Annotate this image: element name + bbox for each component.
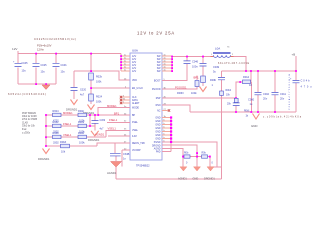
svg-text:12V: 12V bbox=[132, 62, 137, 64]
svg-text:C025: C025 bbox=[41, 64, 48, 67]
wire SW bus bbox=[171, 56, 173, 71]
node SW bus dots bbox=[171, 56, 297, 113]
svg-text:R0b2: R0b2 bbox=[53, 120, 60, 124]
svg-text:MODE1: MODE1 bbox=[107, 104, 117, 108]
svg-text:REFIN_TRK: REFIN_TRK bbox=[132, 143, 145, 145]
svg-text:EN_UVLO: EN_UVLO bbox=[132, 88, 143, 90]
svg-text:12V: 12V bbox=[132, 68, 137, 70]
pin names right column bbox=[152, 56, 161, 154]
capacitor C010 bbox=[255, 92, 262, 94]
svg-text:20v: 20v bbox=[263, 97, 268, 101]
wire snubber column bbox=[202, 57, 204, 87]
svg-text:c.c350z: c.c350z bbox=[22, 133, 31, 135]
wire PAD stub bbox=[162, 151, 171, 153]
wire PGOOD bbox=[162, 87, 197, 90]
svg-text:CLK: CLK bbox=[132, 97, 137, 99]
svg-text:BP1: BP1 bbox=[194, 76, 200, 80]
wire AGND pin route bbox=[162, 149, 183, 157]
pin stubs left VIN x6 bbox=[121, 56, 130, 103]
svg-text:2x: 2x bbox=[124, 58, 126, 60]
svg-text:GND: GND bbox=[155, 128, 160, 130]
node dots GND bus bbox=[170, 116, 211, 157]
wire 12V input rail bbox=[18, 51, 121, 54]
resistor R02b bbox=[89, 73, 94, 80]
svg-text:R024: R024 bbox=[96, 96, 103, 99]
ground arrow snubber bbox=[200, 87, 207, 92]
svg-text:27b4 for P0ZB: 27b4 for P0ZB bbox=[22, 118, 37, 121]
wire cap C045 column bbox=[17, 54, 19, 85]
svg-text:12V: 12V bbox=[132, 56, 137, 58]
wire boot cap top bbox=[186, 57, 188, 61]
node junction dots input bbox=[35, 53, 92, 89]
ground GND triangle bottom bbox=[194, 167, 201, 171]
resistor R03N pgood pullup bbox=[195, 81, 199, 87]
ground DRGND1 triangle bottom bbox=[207, 167, 214, 171]
svg-text:12V: 12V bbox=[132, 59, 137, 61]
resistor R014 bbox=[243, 80, 251, 84]
svg-text:10u: 10u bbox=[41, 71, 46, 74]
svg-text:FSEL1: FSEL1 bbox=[109, 118, 118, 122]
wire output cap column 1 bbox=[257, 71, 259, 112]
capacitor C04b bulk 470u bbox=[293, 80, 300, 82]
svg-text:AGND1: AGND1 bbox=[95, 133, 105, 137]
svg-text:VSEL1: VSEL1 bbox=[108, 126, 117, 130]
svg-text:2x: 2x bbox=[124, 64, 126, 66]
wire input ground rail bbox=[18, 83, 56, 85]
node VIN bus dots bbox=[120, 55, 122, 69]
wire output mid rail B bbox=[222, 70, 297, 72]
ground AGND1 triangle bottom bbox=[180, 167, 187, 171]
resistor R010 VSEL right bbox=[78, 135, 87, 138]
wire AGND return rail bbox=[116, 178, 222, 180]
wire R014 branch bbox=[236, 71, 251, 112]
pin stubs right SW x6 bbox=[162, 56, 172, 71]
svg-text:BP1: BP1 bbox=[114, 111, 120, 115]
svg-text:GND: GND bbox=[155, 121, 160, 123]
svg-text:100k: 100k bbox=[96, 101, 102, 104]
svg-text:4u7: 4u7 bbox=[80, 94, 85, 97]
wire C020 column bbox=[73, 71, 75, 99]
pin names left column bbox=[132, 56, 145, 152]
wire SW to inductor bbox=[172, 56, 213, 58]
svg-text:2x: 2x bbox=[124, 55, 126, 57]
svg-text:DATA: DATA bbox=[132, 99, 138, 102]
wire BP cap column bbox=[94, 115, 96, 130]
wire DRGND route bbox=[162, 145, 197, 156]
note bottom left block bbox=[22, 113, 37, 135]
wire VSEL row bbox=[46, 130, 130, 137]
svg-text:PGND: PGND bbox=[154, 142, 161, 144]
wire cap C025 column bbox=[35, 54, 37, 85]
svg-text:C045: C045 bbox=[22, 62, 29, 65]
svg-text:C049: C049 bbox=[213, 65, 220, 69]
svg-text:RSN: RSN bbox=[156, 105, 161, 107]
resistor R01b MODE right bbox=[78, 113, 87, 116]
svg-text:MODE1: MODE1 bbox=[63, 111, 73, 115]
svg-text:R0b4: R0b4 bbox=[53, 109, 60, 113]
wire inductor to output corner bbox=[231, 57, 246, 72]
svg-text:20v: 20v bbox=[280, 97, 285, 101]
svg-text:DRGND: DRGND bbox=[152, 146, 161, 148]
svg-text:2x: 2x bbox=[124, 67, 126, 69]
resistor R0b zero ohm 1 bbox=[184, 155, 190, 158]
ground DRGND1 arrow under R024 bbox=[88, 105, 95, 110]
svg-text:GND: GND bbox=[155, 118, 160, 120]
svg-text:60524c(C0364K04b): 60524c(C0364K04b) bbox=[8, 92, 46, 96]
node dots bottom left bbox=[45, 114, 99, 147]
pin numbers right bbox=[164, 55, 167, 143]
svg-text:VSEL1: VSEL1 bbox=[63, 133, 72, 137]
svg-text:2x: 2x bbox=[124, 61, 126, 63]
svg-text:GND: GND bbox=[155, 139, 160, 141]
svg-text:6KL4T0-4R7-1C09E: 6KL4T0-4R7-1C09E bbox=[218, 63, 249, 65]
svg-text:100k: 100k bbox=[191, 91, 197, 95]
wire 12V bus to VIN pins bbox=[120, 54, 122, 72]
svg-text:33k2 for 10k: 33k2 for 10k bbox=[22, 125, 36, 128]
wire zero ohm link row bbox=[183, 157, 210, 168]
svg-text:R03N: R03N bbox=[177, 91, 184, 95]
svg-text:VCOMP: VCOMP bbox=[132, 150, 141, 152]
wire divider left column bbox=[45, 115, 47, 146]
op-amp U0A converter IC box bbox=[130, 53, 162, 160]
wire BP1 pullup top bbox=[196, 76, 198, 81]
ground DRGND1 left column bbox=[43, 149, 50, 154]
svg-text:L0A: L0A bbox=[215, 47, 220, 51]
wire +B output column bbox=[295, 56, 297, 112]
svg-text:R02b: R02b bbox=[96, 76, 103, 79]
svg-text:AGND1: AGND1 bbox=[178, 176, 187, 180]
wire REFIN_TRK tap bbox=[114, 143, 116, 153]
capacitor C309 BP bypass bbox=[92, 121, 99, 124]
wire REFIN row bbox=[46, 143, 130, 146]
resistor R024 bbox=[89, 94, 94, 101]
svg-text:AGND1: AGND1 bbox=[107, 171, 117, 175]
capacitor C025 bbox=[33, 64, 40, 67]
ground DRGND1 arrow under C020 bbox=[71, 100, 78, 105]
wire EN_UVLO bbox=[91, 87, 130, 89]
wire GND bus column bbox=[170, 118, 172, 152]
capacitor C046 boot bbox=[184, 61, 191, 64]
svg-text:GND: GND bbox=[251, 124, 257, 128]
no-connect X marks CLK DATA ALERT bbox=[120, 96, 122, 104]
wire Vo sense chain bbox=[221, 71, 223, 179]
svg-text:R019: R019 bbox=[78, 120, 85, 124]
svg-text:TPS548B22: TPS548B22 bbox=[136, 165, 150, 168]
svg-text:AGND: AGND bbox=[154, 148, 161, 151]
svg-text:DRGND1: DRGND1 bbox=[88, 138, 100, 142]
capacitor C045 bbox=[15, 64, 22, 67]
svg-text:C060: C060 bbox=[248, 97, 255, 101]
capacitor C049 sense bbox=[218, 77, 225, 79]
svg-text:12V: 12V bbox=[132, 65, 137, 67]
svg-text:ILIM: ILIM bbox=[132, 136, 137, 138]
svg-text:GND: GND bbox=[155, 135, 160, 137]
svg-text:100k: 100k bbox=[96, 81, 102, 84]
capacitor C011 bbox=[272, 92, 279, 94]
svg-text:C04b: C04b bbox=[61, 64, 68, 67]
svg-text:BP: BP bbox=[132, 115, 136, 117]
wire R02b to EN node bbox=[90, 80, 92, 104]
svg-text:P1N=6x10V: P1N=6x10V bbox=[37, 44, 52, 48]
pin numbers left bbox=[123, 55, 127, 151]
capacitor snubber bbox=[200, 63, 207, 66]
svg-text:DRGND1: DRGND1 bbox=[204, 176, 215, 180]
svg-text:PGOOD: PGOOD bbox=[152, 89, 161, 91]
wire divider mid column bbox=[89, 115, 91, 126]
capacitor C04b bbox=[53, 64, 60, 67]
resistor R0bZ ILIM bbox=[61, 144, 70, 148]
no-connect X mark NC pin bbox=[168, 109, 170, 111]
svg-text:R0b: R0b bbox=[184, 153, 189, 155]
svg-text:PAD: PAD bbox=[156, 151, 161, 154]
svg-text:MODE: MODE bbox=[132, 108, 139, 110]
capacitor C34B comp bbox=[110, 153, 121, 156]
wire ILIM bbox=[108, 135, 130, 137]
wire PGND route bbox=[162, 142, 222, 167]
svg-text:BOOT: BOOT bbox=[154, 81, 161, 83]
wire VCOMP bbox=[122, 150, 130, 167]
svg-text:100k: 100k bbox=[79, 141, 85, 145]
svg-text:GND: GND bbox=[155, 125, 160, 127]
pin stubs right GND x7 bbox=[162, 118, 171, 139]
svg-text:12Vin: 12Vin bbox=[37, 48, 44, 52]
svg-text:FSEL: FSEL bbox=[132, 122, 139, 124]
svg-text:c.c09b(ab,42)4bK0a: c.c09b(ab,42)4bK0a bbox=[263, 117, 302, 119]
svg-text:10k: 10k bbox=[61, 150, 66, 154]
wire cap C04b column bbox=[55, 54, 57, 85]
svg-text:C34B: C34B bbox=[123, 152, 130, 156]
ground arrow output GND bbox=[253, 114, 260, 120]
wire BOOT bbox=[162, 64, 187, 81]
svg-text:FSEL1: FSEL1 bbox=[63, 122, 72, 126]
resistor R019 FSEL right bbox=[78, 124, 87, 127]
svg-text:C010: C010 bbox=[263, 92, 270, 96]
wire FSEL row bbox=[46, 122, 130, 126]
svg-text:33k2 for 4K08: 33k2 for 4K08 bbox=[22, 115, 37, 118]
wire inductor pin stubs bbox=[211, 56, 234, 58]
svg-text:VSEL: VSEL bbox=[132, 130, 139, 132]
ground DRGND1 under C309 bbox=[91, 131, 99, 136]
svg-text:C309: C309 bbox=[100, 120, 106, 122]
svg-text:final: final bbox=[22, 129, 27, 131]
svg-text:12V to 2V 25A: 12V to 2V 25A bbox=[137, 31, 175, 36]
resistor R0b zero ohm 2 bbox=[202, 155, 208, 158]
svg-text:3302: 3302 bbox=[53, 141, 59, 145]
svg-text:GND: GND bbox=[155, 132, 160, 134]
pin stub NC bbox=[162, 110, 168, 112]
svg-text:12V: 12V bbox=[132, 71, 137, 73]
svg-text:+B: +B bbox=[292, 53, 296, 57]
svg-text:CLK8: CLK8 bbox=[22, 123, 29, 125]
pin stubs CLK DATA ALERT bbox=[121, 97, 130, 103]
capacitor C020 bbox=[71, 88, 78, 91]
svg-text:C04b: C04b bbox=[301, 79, 311, 83]
svg-text:100n: 100n bbox=[192, 65, 198, 69]
svg-text:R0b8: R0b8 bbox=[53, 131, 60, 135]
svg-text:ALERT: ALERT bbox=[132, 102, 140, 105]
resistor R0b5 on RSP column bbox=[234, 98, 238, 102]
resistor R0b4 on sense chain bbox=[220, 91, 224, 95]
svg-text:R014: R014 bbox=[243, 75, 250, 79]
wire bottom sense rail bbox=[190, 111, 296, 113]
svg-text:R0b1: R0b1 bbox=[244, 110, 250, 112]
svg-text:R03b: R03b bbox=[210, 78, 217, 82]
ground input PGND triangle bbox=[42, 85, 50, 90]
svg-text:C0225/C3216X5R1V(4x): C0225/C3216X5R1V(4x) bbox=[34, 37, 76, 41]
capacitor C060 bbox=[233, 103, 240, 106]
svg-text:R0bZ: R0bZ bbox=[60, 140, 67, 144]
svg-text:R010: R010 bbox=[78, 131, 85, 135]
svg-text:DRGND1: DRGND1 bbox=[38, 157, 50, 161]
resistor R03b snubber bbox=[201, 76, 206, 83]
wire output cap column 2 bbox=[274, 71, 276, 112]
svg-text:2x: 2x bbox=[124, 70, 126, 72]
svg-text:R0b4: R0b4 bbox=[226, 90, 232, 92]
svg-text:C011: C011 bbox=[280, 92, 286, 96]
wire RSN with jog bbox=[162, 105, 190, 112]
svg-text:C020: C020 bbox=[80, 89, 87, 92]
wire AGND stem bbox=[115, 156, 117, 179]
wire RSP bbox=[162, 97, 236, 99]
resistor R0b2 FSEL left bbox=[53, 124, 62, 127]
svg-text:P0bT B04b8z: P0bT B04b8z bbox=[22, 113, 37, 115]
wire VDD branch from rail bbox=[74, 54, 130, 81]
ground AGND1 triangle bbox=[111, 162, 122, 168]
svg-text:PGOOD1: PGOOD1 bbox=[175, 85, 187, 89]
svg-text:R0b: R0b bbox=[202, 153, 207, 155]
svg-text:VDD: VDD bbox=[132, 80, 137, 82]
svg-text:GND: GND bbox=[193, 176, 199, 180]
svg-text:10u: 10u bbox=[61, 71, 66, 74]
svg-text:NC: NC bbox=[157, 111, 161, 113]
resistor R0b4 MODE left bbox=[53, 113, 62, 116]
svg-text:U0A: U0A bbox=[132, 49, 139, 53]
svg-text:10u: 10u bbox=[22, 70, 27, 73]
svg-text:R01b: R01b bbox=[78, 109, 85, 113]
svg-text:C046: C046 bbox=[192, 60, 199, 64]
wire ground drops bbox=[183, 157, 197, 167]
wire MODE BP row bbox=[46, 108, 130, 116]
resistor R0b8 VSEL left bbox=[53, 135, 62, 138]
svg-text:RSP: RSP bbox=[156, 98, 161, 100]
